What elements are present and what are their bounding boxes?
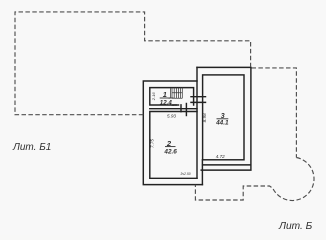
dashed bay arc [195, 158, 314, 201]
step wall below block B [201, 160, 203, 185]
dashed outline lit B1 (left) [15, 12, 251, 115]
block A outer wall [143, 81, 202, 185]
dashed outline lit B (right) [252, 68, 297, 158]
svg-text:42.6: 42.6 [163, 148, 177, 155]
fraction line room 2 [165, 146, 176, 148]
svg-text:7.75: 7.75 [149, 139, 154, 148]
block B mid bottom ledge [203, 164, 251, 166]
room 3 inner wall [203, 75, 244, 160]
svg-text:44.1: 44.1 [215, 120, 229, 127]
fraction line room 3 [217, 118, 229, 120]
door opening tick room1-room2 [185, 104, 187, 116]
svg-text:2.16: 2.16 [151, 92, 156, 102]
svg-text:4.72: 4.72 [216, 154, 225, 159]
label room 1 number [12, 90, 313, 232]
svg-text:12.4: 12.4 [160, 100, 173, 107]
svg-text:5.93: 5.93 [167, 113, 176, 118]
staircase in room 1 [169, 88, 183, 99]
svg-text:8.98: 8.98 [202, 113, 207, 122]
dashed contour [15, 12, 314, 201]
svg-text:Лит. Б: Лит. Б [278, 221, 313, 232]
block B outer wall [197, 67, 251, 170]
wall between room 1 and room 2 [150, 105, 197, 112]
door opening ticks room1-room3 [191, 97, 206, 103]
svg-text:Лит. Б1: Лит. Б1 [12, 142, 51, 153]
fraction line room 1 [160, 97, 174, 99]
block A outer right / room 2 right wall [196, 67, 198, 178]
svg-text:3ч2.50: 3ч2.50 [180, 172, 190, 176]
room 1 inner wall [150, 88, 194, 105]
room 2 inner wall [150, 112, 197, 179]
